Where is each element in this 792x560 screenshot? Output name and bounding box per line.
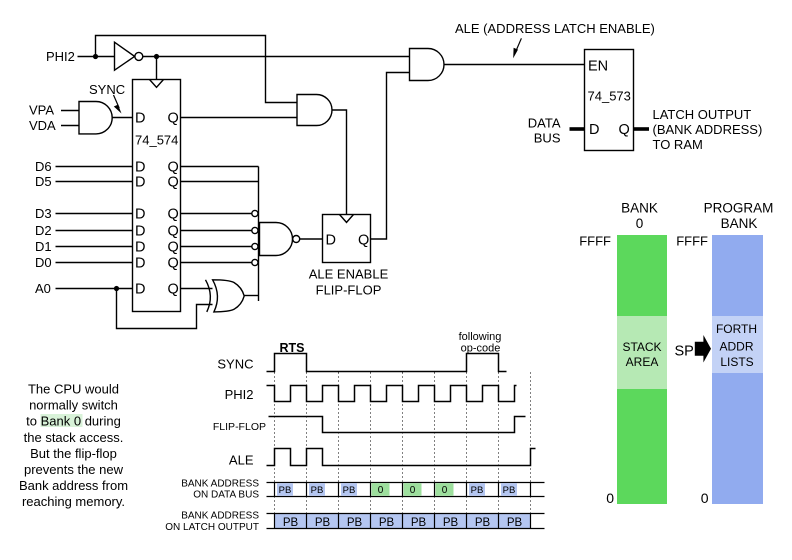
bus row: bank address on data bus frame xyxy=(267,483,545,497)
signal FLIP-FLOP xyxy=(269,417,526,433)
wire D3 input xyxy=(56,213,133,215)
svg-text:PB: PB xyxy=(379,517,395,529)
74_573 pin EN xyxy=(588,59,608,75)
svg-text:PB: PB xyxy=(503,485,516,496)
svg-text:STACK: STACK xyxy=(622,340,661,354)
signal PHI2 xyxy=(267,386,517,402)
svg-text:ALE (ADDRESS LATCH ENABLE): ALE (ADDRESS LATCH ENABLE) xyxy=(455,21,655,36)
latch output row: blue PB cells xyxy=(275,514,531,529)
label D0 xyxy=(35,255,52,270)
wire inverter output to AND U4 top input xyxy=(143,56,410,58)
label FFFF (program bank) xyxy=(676,234,708,249)
highlight Bank 0 xyxy=(41,414,83,427)
svg-text:D: D xyxy=(589,122,599,138)
svg-text:LATCH OUTPUT: LATCH OUTPUT xyxy=(653,107,752,122)
wire NAND output to ALE flip-flop D xyxy=(300,238,323,240)
wire feedback: junction up, right, down to AND U3 top input xyxy=(96,36,298,103)
wire D1 input xyxy=(56,246,133,248)
svg-text:PROGRAM: PROGRAM xyxy=(704,201,774,216)
svg-text:following: following xyxy=(459,331,502,343)
svg-text:D1: D1 xyxy=(35,239,52,254)
svg-text:0: 0 xyxy=(701,490,709,506)
header PROGRAM BANK xyxy=(704,201,774,232)
svg-text:ON DATA BUS: ON DATA BUS xyxy=(193,490,259,501)
svg-text:reaching memory.: reaching memory. xyxy=(22,494,125,509)
AND gate U1 (VPA.VDA) xyxy=(79,102,112,134)
74_573 pin D xyxy=(589,122,599,138)
svg-text:74_574: 74_574 xyxy=(135,133,178,148)
wire Q-D5 to input bus xyxy=(181,181,259,183)
wire Q-D6 to input bus xyxy=(181,166,259,168)
label LATCH OUTPUT (BANK ADDRESS) TO RAM xyxy=(653,107,763,152)
NAND U5 input bubble at Q-D0 xyxy=(252,259,258,265)
label SYNC xyxy=(89,82,125,97)
svg-text:BANK ADDRESS: BANK ADDRESS xyxy=(181,479,259,490)
74_573 pin Q xyxy=(619,122,630,138)
svg-text:D: D xyxy=(135,160,145,176)
svg-text:ON LATCH OUTPUT: ON LATCH OUTPUT xyxy=(165,522,259,533)
svg-text:FLIP-FLOP: FLIP-FLOP xyxy=(213,421,266,433)
label 74_573 xyxy=(588,89,631,104)
svg-text:FLIP-FLOP: FLIP-FLOP xyxy=(316,283,382,298)
label 0 (program bank bottom) xyxy=(701,490,709,506)
label ALE (timing) xyxy=(229,453,254,468)
wire PHI2 to inverter input xyxy=(78,56,115,58)
svg-text:TO RAM: TO RAM xyxy=(653,137,703,152)
label D3 xyxy=(35,206,52,221)
label SP xyxy=(675,344,694,360)
NAND gate U5 xyxy=(260,223,293,256)
svg-text:0: 0 xyxy=(378,485,384,496)
junction dot A0 xyxy=(114,286,119,291)
bus wire 74_573 Q output xyxy=(634,127,650,131)
NAND U5 input bubble at Q-D1 xyxy=(252,243,258,249)
wire ALE: U4 output to 74_573 EN xyxy=(444,64,585,66)
junction dot inverter output xyxy=(154,54,159,59)
svg-text:D: D xyxy=(135,282,145,298)
label BANK ADDRESS ON DATA BUS xyxy=(181,479,259,501)
label RTS xyxy=(280,341,305,355)
caption ALE ENABLE xyxy=(309,267,389,282)
svg-text:prevents the new: prevents the new xyxy=(24,462,124,477)
label FLIP-FLOP (timing) xyxy=(213,421,266,433)
svg-text:PB: PB xyxy=(347,517,363,529)
svg-text:SYNC: SYNC xyxy=(89,82,125,97)
svg-text:FORTH: FORTH xyxy=(716,322,757,336)
svg-text:PHI2: PHI2 xyxy=(225,387,254,402)
junction dot on PHI2 line xyxy=(93,54,98,59)
ALE flip-flop pin D xyxy=(326,232,336,248)
svg-text:Q: Q xyxy=(168,111,179,127)
svg-text:PB: PB xyxy=(311,485,324,496)
svg-text:D: D xyxy=(135,175,145,191)
svg-text:FFFF: FFFF xyxy=(676,234,708,249)
svg-text:op-code: op-code xyxy=(461,343,501,355)
label DATA BUS xyxy=(528,116,561,146)
wire D2 input xyxy=(56,230,133,232)
XOR gate U6 xyxy=(206,280,245,312)
svg-text:A0: A0 xyxy=(35,281,51,296)
svg-text:PB: PB xyxy=(343,485,356,496)
svg-text:SP: SP xyxy=(675,344,694,360)
svg-text:D: D xyxy=(135,207,145,223)
signal ALE xyxy=(267,449,536,466)
svg-text:PHI2: PHI2 xyxy=(46,49,75,64)
svg-text:PB: PB xyxy=(279,485,292,496)
svg-text:BUS: BUS xyxy=(534,131,561,146)
svg-text:DATA: DATA xyxy=(528,116,561,131)
svg-text:Q: Q xyxy=(168,256,179,272)
svg-text:D: D xyxy=(135,256,145,272)
wire Q-D0 to NAND bubble xyxy=(181,262,252,264)
svg-text:PB: PB xyxy=(507,517,523,529)
svg-text:PB: PB xyxy=(411,517,427,529)
label D2 xyxy=(35,223,52,238)
data bus cells 0 (bank zero) xyxy=(372,483,454,496)
74_573 latch U8 box xyxy=(585,50,634,151)
74_574 register U10 box xyxy=(133,80,181,312)
label 74_574 xyxy=(135,133,178,148)
svg-text:the stack access.: the stack access. xyxy=(24,430,124,445)
svg-text:VDA: VDA xyxy=(29,118,56,133)
svg-text:VPA: VPA xyxy=(29,103,54,118)
svg-text:EN: EN xyxy=(588,59,608,75)
svg-text:PB: PB xyxy=(315,517,331,529)
label VDA xyxy=(29,118,56,133)
svg-text:Q: Q xyxy=(358,232,369,248)
wire junction down to 74_574 clock xyxy=(156,57,158,80)
svg-text:74_573: 74_573 xyxy=(588,89,631,104)
wire Q-A0 to XOR U6 top input xyxy=(181,288,213,290)
wire VDA to AND U1 xyxy=(61,125,79,127)
NAND U5 output bubble xyxy=(293,236,300,243)
label 0 (bank 0 bottom) xyxy=(606,490,614,506)
label following op-code xyxy=(459,331,502,355)
wire A0 bottom path to XOR U6 lower input xyxy=(117,289,213,329)
inverter U2 triangle xyxy=(115,42,135,70)
bank 0 memory column (green) xyxy=(617,235,667,504)
svg-text:0: 0 xyxy=(442,485,448,496)
inverter U2 output bubble xyxy=(135,52,143,60)
timing grid dotted lines xyxy=(275,373,531,514)
wire Q-D1 to NAND bubble xyxy=(181,246,252,248)
svg-text:D: D xyxy=(135,111,145,127)
ALE flip-flop pin Q xyxy=(358,232,369,248)
svg-text:Q: Q xyxy=(168,207,179,223)
AND gate U3 (middle) xyxy=(297,95,332,126)
svg-text:ALE ENABLE: ALE ENABLE xyxy=(309,267,389,282)
label PHI2 (timing) xyxy=(225,387,254,402)
label A0 xyxy=(35,281,51,296)
svg-text:Q: Q xyxy=(168,240,179,256)
wire Q1 to AND U3 bottom input xyxy=(181,117,298,119)
svg-text:Q: Q xyxy=(619,122,630,138)
wire U3 output to ALE flip-flop clock xyxy=(332,110,347,215)
bus wire DATA BUS to 74_573 D xyxy=(570,127,585,131)
wire NAND input bus vertical xyxy=(258,167,260,302)
label D1 xyxy=(35,239,52,254)
svg-text:FFFF: FFFF xyxy=(579,234,611,249)
svg-text:(BANK ADDRESS): (BANK ADDRESS) xyxy=(653,122,763,137)
label PHI2 xyxy=(46,49,75,64)
label VPA xyxy=(29,103,54,118)
svg-text:D0: D0 xyxy=(35,255,52,270)
svg-text:Q: Q xyxy=(168,282,179,298)
svg-text:D3: D3 xyxy=(35,206,52,221)
label SYNC (timing) xyxy=(217,357,253,372)
wire ALE flip-flop Q up to AND U4 bottom input xyxy=(371,73,410,240)
ALE enable flip-flop U7 box xyxy=(323,215,371,263)
svg-text:D6: D6 xyxy=(35,159,52,174)
svg-text:Q: Q xyxy=(168,160,179,176)
wire U1 output to 74_574 D1 xyxy=(112,117,132,119)
svg-text:D5: D5 xyxy=(35,174,52,189)
svg-text:PB: PB xyxy=(443,517,459,529)
annotation arrow ALE label to wire xyxy=(513,38,521,58)
data bus cells PB (program bank) xyxy=(277,483,517,496)
paragraph: CPU explanation xyxy=(19,382,128,510)
wire D6 input xyxy=(56,166,133,168)
74_574 pin letters Q (rows) xyxy=(168,111,179,298)
wire VPA to AND U1 xyxy=(61,110,79,112)
svg-text:0: 0 xyxy=(410,485,416,496)
svg-text:D: D xyxy=(135,240,145,256)
wire D0 input xyxy=(56,262,133,264)
wire Q-D3 to NAND bubble xyxy=(181,213,252,215)
wire Q-D2 to NAND bubble xyxy=(181,230,252,232)
label BANK ADDRESS ON LATCH OUTPUT xyxy=(165,511,259,534)
svg-text:0: 0 xyxy=(606,490,614,506)
svg-text:PB: PB xyxy=(475,517,491,529)
NAND U5 input bubble at Q-D2 xyxy=(252,227,258,233)
label D6 xyxy=(35,159,52,174)
svg-text:Q: Q xyxy=(168,175,179,191)
svg-text:BANK ADDRESS: BANK ADDRESS xyxy=(181,511,259,522)
caption FLIP-FLOP xyxy=(316,283,382,298)
svg-text:LISTS: LISTS xyxy=(720,355,753,369)
svg-text:AREA: AREA xyxy=(626,355,659,369)
label FORTH ADDR LISTS xyxy=(716,322,757,369)
svg-text:to Bank 0 during: to Bank 0 during xyxy=(26,414,121,429)
NAND U5 input bubble at Q-D3 xyxy=(252,210,258,216)
svg-text:But the flip-flop: But the flip-flop xyxy=(30,446,117,461)
wire XOR output to input bus xyxy=(244,295,258,297)
latch output row frame xyxy=(267,514,545,529)
label FFFF (bank 0) xyxy=(579,234,611,249)
program bank column (blue) xyxy=(712,235,763,504)
annotation arrow SYNC to D input xyxy=(114,95,122,114)
svg-text:BANK: BANK xyxy=(721,216,758,231)
label STACK AREA xyxy=(622,340,661,369)
svg-text:D2: D2 xyxy=(35,223,52,238)
svg-text:The CPU would: The CPU would xyxy=(28,382,119,397)
svg-text:D: D xyxy=(135,224,145,240)
svg-text:ADDR: ADDR xyxy=(719,340,753,354)
svg-text:normally switch: normally switch xyxy=(29,398,118,413)
svg-text:Q: Q xyxy=(168,224,179,240)
svg-text:PB: PB xyxy=(471,485,484,496)
SP pointer arrow xyxy=(695,335,711,363)
label D5 xyxy=(35,174,52,189)
svg-text:BANK: BANK xyxy=(621,201,658,216)
label ALE (ADDRESS LATCH ENABLE) xyxy=(455,21,655,36)
AND gate U4 (ALE output) xyxy=(410,49,445,81)
stack area band (light green) xyxy=(617,316,667,389)
wire D5 input xyxy=(56,181,133,183)
svg-text:ALE: ALE xyxy=(229,453,254,468)
svg-text:SYNC: SYNC xyxy=(217,357,253,372)
wire A0 input xyxy=(56,288,133,290)
svg-text:PB: PB xyxy=(283,517,299,529)
signal SYNC xyxy=(267,354,507,372)
header BANK 0 xyxy=(621,201,658,232)
forth addr lists band (light blue) xyxy=(712,316,763,373)
74_574 pin letters D (rows) xyxy=(135,111,145,298)
svg-text:D: D xyxy=(326,232,336,248)
svg-text:Bank address from: Bank address from xyxy=(19,478,128,493)
svg-text:0: 0 xyxy=(636,216,644,231)
